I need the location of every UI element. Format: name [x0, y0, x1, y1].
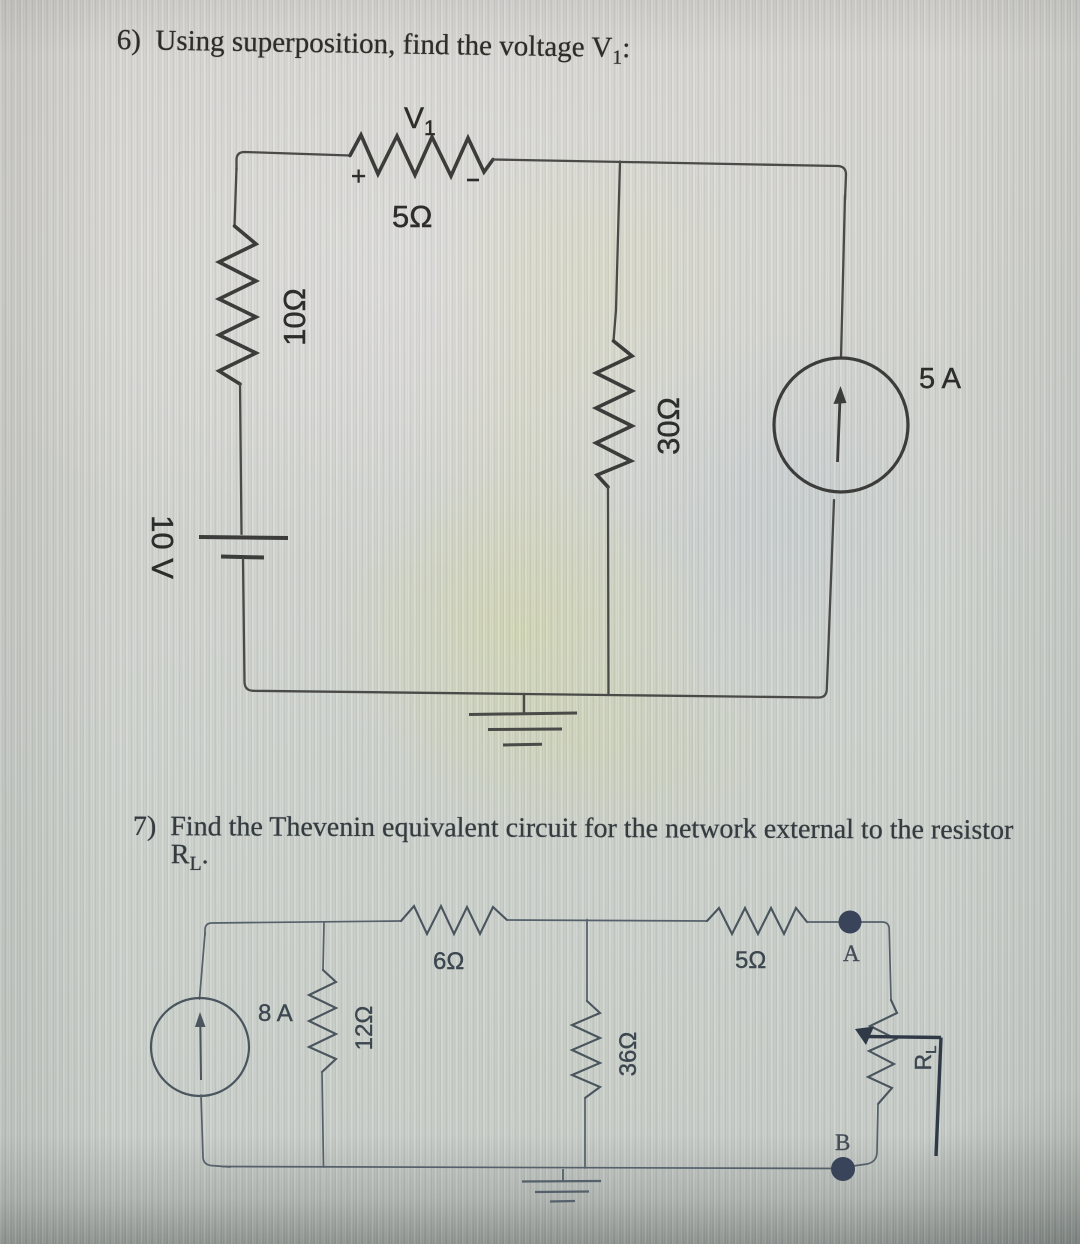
svg-text:10 V: 10 V: [145, 515, 180, 579]
svg-text:RL: RL: [910, 1046, 940, 1071]
svg-text:8 A: 8 A: [258, 1000, 293, 1027]
svg-text:A: A: [843, 941, 860, 966]
svg-text:5Ω: 5Ω: [735, 947, 766, 974]
svg-text:6Ω: 6Ω: [433, 948, 464, 975]
svg-text:+: +: [351, 161, 366, 191]
svg-text:10Ω: 10Ω: [277, 288, 312, 346]
svg-text:30Ω: 30Ω: [651, 397, 686, 455]
svg-text:12Ω: 12Ω: [351, 1006, 378, 1051]
svg-text:V1: V1: [404, 102, 436, 140]
svg-text:B: B: [835, 1130, 850, 1155]
svg-text:36Ω: 36Ω: [615, 1032, 642, 1077]
svg-text:5 A: 5 A: [919, 363, 962, 395]
svg-text:5Ω: 5Ω: [392, 199, 432, 234]
